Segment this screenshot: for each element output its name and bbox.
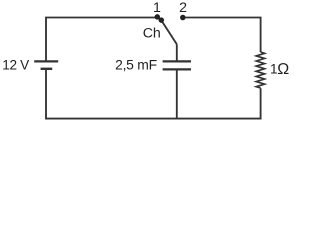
svg-text:Ch: Ch xyxy=(143,26,161,42)
wire: capacitor branch lower xyxy=(176,70,178,118)
svg-text:1: 1 xyxy=(153,0,161,16)
node: contact 1 dot xyxy=(155,14,161,20)
wire: capacitor branch upper stub xyxy=(176,44,178,60)
capacitor 2,5 mF xyxy=(163,61,191,69)
node: contact 2 dot xyxy=(180,15,186,21)
svg-text:12 V: 12 V xyxy=(2,57,29,72)
node: blade tip dot xyxy=(159,17,165,23)
battery 12 V xyxy=(34,61,58,68)
svg-text:2,5 mF: 2,5 mF xyxy=(115,57,157,73)
resistor R 1 ohm xyxy=(256,52,264,88)
switch Ch blade xyxy=(161,20,177,44)
wire: right top from contact 2 to resistor xyxy=(185,18,261,53)
svg-text:2: 2 xyxy=(179,0,187,16)
wire: bottom loop (left below battery, bottom, right below resistor) xyxy=(46,70,261,119)
wire: top-left from battery to contact 1 xyxy=(46,18,155,62)
svg-text:Ω: Ω xyxy=(277,61,289,78)
